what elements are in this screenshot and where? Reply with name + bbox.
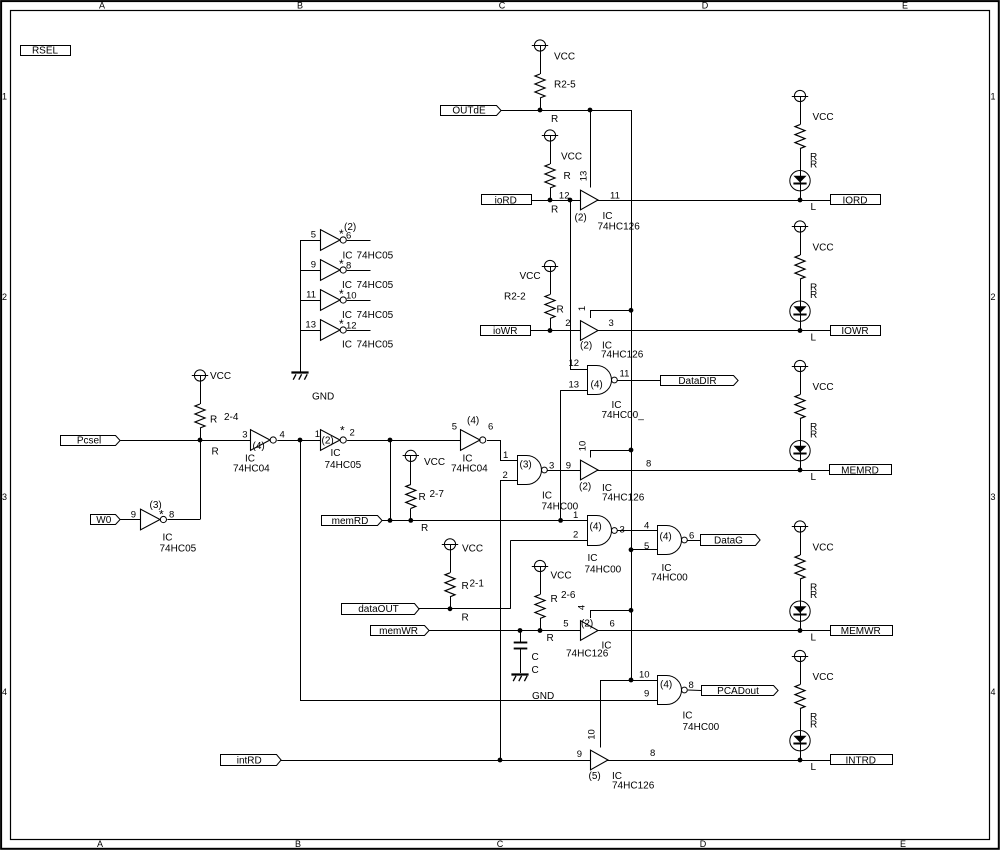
svg-text:PCADout: PCADout [717,686,759,697]
svg-text:4: 4 [2,687,7,697]
LED column MEMRD (VCC, resistor R, LED) [790,360,834,483]
svg-text:R: R [551,205,558,216]
svg-text:8: 8 [346,261,351,272]
svg-text:MEMRD: MEMRD [841,465,879,476]
svg-text:3: 3 [549,461,554,472]
junction memWR/R2-6 [538,628,543,633]
wire Pcsel to inverter [121,440,251,442]
svg-text:8: 8 [689,680,694,691]
svg-text:2-4: 2-4 [224,412,239,423]
wire buffer B out to IOWR [598,330,831,332]
svg-text:VCC: VCC [462,544,483,555]
svg-text:DataG: DataG [714,535,743,546]
svg-text:9: 9 [644,689,649,700]
svg-text:2: 2 [573,530,578,541]
svg-text:ioRD: ioRD [495,195,517,206]
net label Pcsel [61,436,121,447]
net label ioWR [481,326,531,337]
NAND U9 74HC00 (4) PCADout pins 10,9->8 [639,670,720,734]
junction ioWR/R2-2 [548,328,553,333]
wire memRD line [382,520,588,522]
junction node (300,440) [298,438,303,443]
svg-text:VCC: VCC [813,112,834,123]
svg-text:5: 5 [311,230,316,241]
svg-text:*: * [339,257,344,271]
junction bus/ctrl1 [629,308,634,313]
svg-text:L: L [811,633,817,644]
svg-text:74HC05: 74HC05 [357,310,394,321]
NAND U5 74HC00 (3) pins 1,2->3 [518,456,579,513]
svg-text:1: 1 [503,450,508,461]
svg-text:3: 3 [609,318,614,329]
svg-text:VCC: VCC [813,382,834,393]
svg-text:74HC00: 74HC00 [585,565,622,576]
inverter U3 74HC05 W0 (9->8) [131,500,197,555]
svg-text:4: 4 [644,521,649,532]
svg-text:74HC05: 74HC05 [325,460,362,471]
LED column MEMWR (VCC, resistor R, LED) [790,521,834,644]
resistor R 2-4 with VCC [192,370,239,458]
svg-text:2: 2 [350,428,355,439]
inverter U4 74HC04 (5->6) [451,416,493,475]
svg-text:C: C [499,0,506,10]
svg-text:3: 3 [2,492,7,502]
resistor R 2-7 with VCC [403,450,446,534]
spare inverter IC 74HC05 (11->10) [300,287,371,310]
NAND U8 74HC00 (4) DataG-b pins 4,5->6 [644,526,694,584]
wire ctrl13 buffer A [590,110,592,188]
svg-text:11: 11 [306,290,316,301]
svg-text:74HC126: 74HC126 [601,350,644,361]
svg-text:74HC05: 74HC05 [357,251,394,262]
svg-text:(2): (2) [344,222,356,233]
net label IOWR [831,326,881,337]
svg-text:INTRD: INTRD [845,755,876,766]
svg-text:VCC: VCC [424,457,445,468]
svg-text:intRD: intRD [237,755,262,766]
svg-text:9: 9 [311,260,316,271]
svg-text:VCC: VCC [813,543,834,554]
svg-text:2-1: 2-1 [470,579,485,590]
wire node390 down to memRD [390,440,392,520]
svg-text:6: 6 [689,531,694,542]
junction node (390,440) [388,438,393,443]
net label MEMWR [831,626,893,637]
svg-text:VCC: VCC [551,571,572,582]
net label intRD [221,755,282,767]
sheet label RSEL [21,46,71,57]
svg-text:IC: IC [342,340,352,351]
svg-text:dataOUT: dataOUT [358,604,399,615]
svg-text:8: 8 [650,748,655,759]
wire DataG-a out to DataG-b pin4 [617,521,657,532]
svg-text:(3): (3) [520,460,532,471]
wire DataG-b out to label [687,540,700,542]
svg-text:IC: IC [163,533,173,544]
resistor R2-2 with VCC [504,260,564,330]
svg-text:R: R [547,633,554,644]
svg-text:(4): (4) [660,532,672,543]
svg-text:74HC04: 74HC04 [451,464,488,475]
svg-text:VCC: VCC [520,271,541,282]
svg-text:ioWR: ioWR [493,326,517,337]
svg-text:RSEL: RSEL [32,46,59,57]
svg-text:VCC: VCC [813,243,834,254]
svg-text:Pcsel: Pcsel [77,436,101,447]
svg-text:2-7: 2-7 [430,489,445,500]
svg-text:4: 4 [280,430,285,441]
junction memWR/cap [518,628,523,633]
svg-text:memRD: memRD [332,516,369,527]
svg-text:*: * [340,424,345,438]
svg-text:R: R [421,523,428,534]
wire NAND3 pin2 down to intRD [500,470,517,760]
junction bus/ctrl4 [629,608,634,613]
svg-text:10: 10 [639,670,650,681]
svg-text:GND: GND [312,392,334,403]
wire buffer A out to IORD [598,200,831,202]
junction intRD/NAND3pin2 [498,758,503,763]
buffer U11 74HC126 (2) ioWR 2->3 [565,306,643,361]
svg-text:VCC: VCC [561,152,582,163]
svg-text:E: E [902,0,908,10]
svg-text:*: * [339,317,344,331]
junction ioRD/pullup [548,198,553,203]
wire quad inverter inputs bus [300,240,302,372]
wire buffer C out to MEMRD [598,470,830,472]
junction memRD/NAND13 branch [558,518,563,523]
svg-text:(2): (2) [580,341,592,352]
svg-text:6: 6 [488,422,493,433]
svg-text:R: R [462,581,469,592]
wire buffer E out to INTRD [608,760,831,762]
svg-text:9: 9 [566,461,571,472]
junction MEMWR LED [798,628,803,633]
net label dataOUT [342,604,420,616]
svg-text:R: R [810,290,817,301]
svg-text:2: 2 [503,470,508,481]
label IC 74HC05 row 1 [343,251,394,262]
wire inv4 out to inv05 in [277,440,320,442]
wire ctrl1 buffer B [590,310,631,318]
wire dataOUT line [419,608,511,610]
svg-text:W0: W0 [96,515,111,526]
buffer U14 74HC126 (5) INTRD 9->8 [577,729,656,791]
svg-text:(4): (4) [590,522,602,533]
wire inv05 out to inv04b in [347,440,460,442]
svg-text:9: 9 [577,749,582,760]
svg-text:VCC: VCC [813,672,834,683]
resistor R2-5 with VCC [532,40,576,125]
inverter U2 74HC05 (1->2) [315,424,362,472]
svg-text:74HC00: 74HC00 [651,573,688,584]
svg-text:2: 2 [2,292,7,302]
svg-text:(2): (2) [575,213,587,224]
svg-text:R: R [212,447,219,458]
svg-text:74HC05: 74HC05 [357,340,394,351]
svg-text:IC: IC [588,553,598,564]
svg-text:R: R [210,415,217,426]
svg-text:DataDIR: DataDIR [678,376,716,387]
svg-text:4: 4 [991,687,996,697]
svg-text:memWR: memWR [379,626,418,637]
svg-text:4: 4 [577,605,588,610]
wire dataOUT up to DataG-a pin2 [511,540,588,608]
spare inverter IC 74HC05 (9->8) [300,257,371,280]
junction IOWR LED [798,328,803,333]
svg-text:D: D [702,0,709,10]
svg-text:2: 2 [565,318,570,329]
svg-text:(4): (4) [253,441,265,452]
LED column IORD (VCC, resistor R, LED) [790,90,834,213]
resistor R 2-6 with VCC [532,560,576,644]
wire W0 inverter out up to Pcsel node [167,440,200,520]
svg-text:R: R [551,594,558,605]
svg-text:C: C [532,665,539,676]
spare inverter IC 74HC05 (5->6) [300,227,371,250]
svg-text:13: 13 [579,171,590,182]
wire NAND3 out to buffer9 [547,470,580,472]
svg-text:B: B [295,839,301,849]
wire intRD to buffer E [281,760,590,762]
wire OUTdE line [501,110,631,112]
svg-text:11: 11 [610,191,620,202]
svg-text:12: 12 [346,321,357,332]
wire branch memRD up to DataDIR NAND pin13 [561,390,588,520]
junction bus end/pin10 [629,678,634,683]
svg-text:IC: IC [683,711,693,722]
svg-text:10: 10 [587,729,598,740]
LED column INTRD (VCC, resistor R, LED) [790,650,834,773]
svg-text:D: D [700,839,707,849]
svg-text:A: A [99,0,105,10]
svg-text:2: 2 [991,292,996,302]
svg-text:L: L [811,762,817,773]
svg-text:74HC05: 74HC05 [357,280,394,291]
svg-text:5: 5 [452,422,457,433]
vertical bus OUTdE [631,110,633,680]
wire PCADout pin10 line [600,680,658,682]
svg-text:C: C [497,839,504,849]
net label INTRD [831,755,893,767]
svg-text:3: 3 [242,430,247,441]
wire DataDIR NAND out to label [617,380,660,382]
svg-text:5: 5 [563,619,568,630]
svg-text:IC: IC [603,211,613,222]
svg-text:OUTdE: OUTdE [452,106,486,117]
svg-text:74HC126: 74HC126 [612,781,655,792]
wire PCADout NAND out to label [688,689,701,692]
inverter U1 74HC04 (3->4) [233,430,285,475]
net label memWR [371,626,430,637]
junction INTRD LED [798,758,803,763]
svg-text:74HC126: 74HC126 [602,493,645,504]
wire pin10 corner down to bufE ctrl [600,680,602,748]
svg-text:11: 11 [620,369,630,380]
svg-text:8: 8 [646,459,651,470]
svg-text:2-6: 2-6 [561,590,576,601]
svg-text:VCC: VCC [554,52,575,63]
svg-text:74HC00: 74HC00 [683,722,720,733]
junction MEMRD LED [798,468,803,473]
svg-text:10: 10 [578,441,589,452]
svg-text:5: 5 [644,541,649,552]
net label DataG [701,535,761,547]
svg-text:B: B [297,0,303,10]
svg-text:L: L [811,333,817,344]
svg-text:(5): (5) [589,771,601,782]
svg-text:R: R [810,160,817,171]
buffer U13 74HC126 (2) MEMWR 5->6 [563,605,615,660]
svg-text:C: C [532,652,539,663]
junction IORD LED [798,198,803,203]
svg-text:R: R [810,430,817,441]
LED column IOWR (VCC, resistor R, LED) [790,221,834,344]
svg-text:R: R [810,720,817,731]
wire bus to DataG-b pin5 [631,549,657,551]
svg-text:R: R [462,613,469,624]
svg-text:(4): (4) [660,680,672,691]
junction OUTdE/R2-5 [538,108,543,113]
junction bus/ctrl10 [629,448,634,453]
net label W0 wire [120,519,141,521]
spare inverter IC 74HC05 (13->12) [300,317,371,340]
svg-text:74HC126: 74HC126 [598,222,641,233]
svg-text:R2-5: R2-5 [554,80,576,91]
svg-text:6: 6 [610,619,615,630]
buffer U10 74HC126 (2) ioRD 12->11 [559,171,640,233]
wire ioWR to buffer [531,330,580,332]
resistor R (ioRD pull-up) with VCC [542,130,582,216]
svg-text:E: E [900,839,906,849]
svg-text:1: 1 [577,306,588,311]
svg-text:(2): (2) [579,482,591,493]
svg-text:R: R [557,305,564,316]
svg-text:L: L [811,472,817,483]
svg-text:IOWR: IOWR [841,326,868,337]
wire ctrl10 buffer C [590,450,631,458]
svg-text:1: 1 [2,92,7,102]
net label OUTdE [441,106,502,117]
junction Pcsel/R2-4 [198,438,203,443]
svg-text:74HC04: 74HC04 [233,464,270,475]
svg-text:3: 3 [991,492,996,502]
net label DataDIR [661,376,739,387]
wire long Pcsel-chain to PCADout pin9 [300,440,658,701]
net label IORD [831,195,881,207]
svg-text:13: 13 [569,380,580,391]
NAND U7 74HC00 (4) DataG-a pins 1,2->3 [573,510,625,576]
svg-text:R: R [564,171,571,182]
svg-text:(2): (2) [322,436,334,447]
svg-text:(4): (4) [591,380,603,391]
svg-text:IC: IC [331,448,341,459]
wire ioRD branch down to NAND pin12 [570,200,587,370]
svg-text:IC: IC [542,491,552,502]
svg-text:R2-2: R2-2 [504,292,526,303]
wire buffer D out to MEMWR [598,630,831,632]
wire inv6 out to NAND3 pin1 [487,440,517,461]
svg-text:L: L [811,202,817,213]
svg-text:13: 13 [305,320,316,331]
svg-text:GND: GND [532,691,554,702]
svg-text:1: 1 [991,92,996,102]
net label ioRD [482,195,532,207]
junction bus/DataG pin5 [629,547,634,552]
label IC 74HC05 row 3 [342,310,394,321]
wire ioRD to buffer [531,200,580,202]
svg-text:74HC00_: 74HC00_ [602,410,645,421]
svg-text:9: 9 [131,510,136,521]
svg-text:1: 1 [315,429,320,440]
svg-text:74HC05: 74HC05 [160,544,197,555]
wire memWR line [429,630,580,632]
junction OUTdE/ctrl13 [588,108,593,113]
svg-text:*: * [339,287,344,301]
ground GND (capacitor) [511,675,554,703]
net label memRD [322,516,383,527]
junction memRD/R2-7 [408,518,413,523]
svg-text:1: 1 [573,510,578,521]
svg-text:A: A [97,839,103,849]
net label W0 [91,515,121,526]
junction memRD/390 [388,518,393,523]
svg-text:*: * [159,508,164,522]
svg-text:R: R [551,114,558,125]
svg-text:MEMWR: MEMWR [841,626,881,637]
net label PCADout [702,686,779,697]
junction dataOUT/R2-1 [448,606,453,611]
svg-text:8: 8 [169,510,174,521]
resistor R 2-1 with VCC [442,539,485,624]
svg-text:74HC126: 74HC126 [566,649,609,660]
buffer U12 74HC126 (2) MEMRD 9->8 [566,441,652,504]
label (2) of spare inverter 1 [344,222,356,233]
svg-text:IORD: IORD [843,195,868,206]
svg-text:VCC: VCC [210,371,231,382]
label IC 74HC05 row 2 [342,280,394,291]
wire ctrl4 buffer D [590,610,631,618]
ground GND (quad inverters) [291,373,334,403]
svg-text:10: 10 [346,291,357,302]
junction ioRD/NAND12 branch [568,198,573,203]
svg-text:R: R [419,492,426,503]
svg-text:(4): (4) [467,416,479,427]
label IC 74HC05 row 4 [342,340,394,351]
net label MEMRD [830,465,892,477]
capacitor C [514,631,539,677]
svg-text:R: R [810,590,817,601]
svg-text:(2): (2) [581,619,593,630]
NAND U6 74HC00 (4) DataDIR pins 12,13->11 [569,358,645,421]
